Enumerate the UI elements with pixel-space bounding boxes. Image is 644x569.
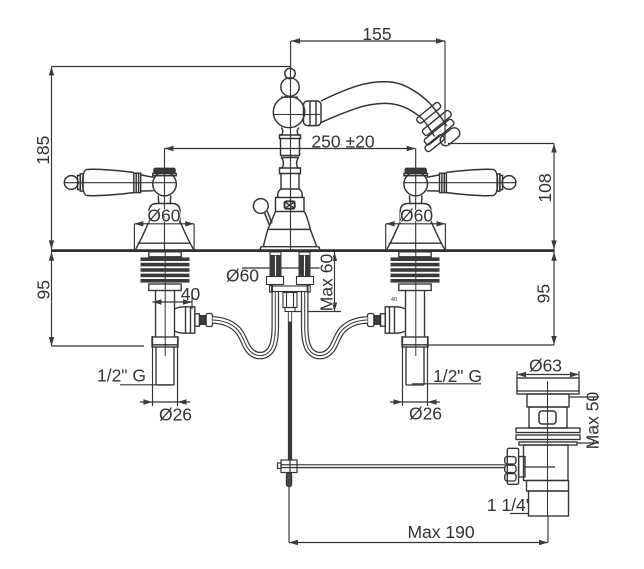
handle stem bbox=[409, 196, 422, 204]
spout bbox=[321, 82, 430, 123]
svg-text:1 1/4': 1 1/4' bbox=[487, 495, 529, 515]
linkage tip bbox=[286, 473, 291, 487]
aerator bbox=[407, 100, 466, 158]
svg-text:108: 108 bbox=[535, 173, 555, 202]
ball bbox=[153, 172, 177, 196]
lever grip bbox=[446, 169, 497, 195]
svg-text:Max 50: Max 50 bbox=[583, 392, 603, 450]
svg-text:Ø26: Ø26 bbox=[409, 404, 442, 424]
base cap bbox=[400, 204, 431, 224]
right handle bbox=[387, 168, 516, 250]
center axis line bbox=[290, 67, 292, 251]
center mounting studs bbox=[267, 252, 314, 312]
svg-text:95: 95 bbox=[534, 284, 554, 303]
dimension O26 left bbox=[140, 336, 190, 406]
pop-up knob bbox=[253, 199, 268, 214]
svg-text:Ø60: Ø60 bbox=[147, 205, 180, 225]
dimension Max 50 drain bbox=[569, 397, 599, 443]
left valve below deck bbox=[141, 252, 190, 385]
lever end rings bbox=[80, 174, 83, 191]
leader 1 1/4 drain bbox=[510, 513, 529, 515]
faucet center column bbox=[253, 67, 321, 251]
finial top ball bbox=[285, 68, 295, 78]
pipe bbox=[156, 290, 175, 337]
pop-up screw symbol bbox=[285, 201, 295, 208]
svg-text:95: 95 bbox=[33, 280, 53, 299]
column bulge bbox=[278, 189, 303, 198]
label Max 50 bbox=[584, 400, 601, 441]
body bell lower bbox=[263, 229, 316, 246]
column segments bbox=[280, 128, 301, 149]
dimension Max 190 bottom bbox=[289, 487, 548, 545]
svg-text:Max 190: Max 190 bbox=[407, 522, 474, 542]
dimension 155 top bbox=[291, 38, 445, 143]
top nut bbox=[399, 252, 431, 257]
svg-text:250 ±20: 250 ±20 bbox=[311, 131, 374, 151]
main ball joint bbox=[273, 96, 304, 127]
base cap bbox=[149, 204, 180, 224]
right valve side port bbox=[368, 307, 406, 333]
body bell upper bbox=[268, 212, 311, 230]
dimension Max 60 center bbox=[295, 252, 341, 312]
left handle bbox=[64, 168, 193, 250]
top nut bbox=[149, 252, 181, 257]
dimension 40 left valve bbox=[153, 291, 193, 309]
bottom nut bbox=[399, 284, 431, 291]
lower body bbox=[524, 445, 569, 481]
lever collar bbox=[134, 173, 141, 192]
threaded pipe 1/2G bbox=[406, 347, 424, 385]
handle stem bbox=[158, 196, 171, 204]
flange bbox=[517, 378, 579, 394]
lever grip bbox=[83, 169, 134, 195]
mounting plate bbox=[272, 286, 309, 292]
spout collar bbox=[304, 101, 322, 126]
dimension O26 right bbox=[390, 336, 440, 406]
body foot bbox=[260, 247, 319, 250]
lever end rings bbox=[497, 174, 500, 191]
aerator inner tube lines bbox=[423, 104, 448, 137]
base flare bbox=[136, 221, 193, 248]
pipe bbox=[406, 290, 425, 337]
drain assembly bbox=[505, 378, 580, 516]
leader 1/2 G left bbox=[120, 384, 173, 386]
right valve below deck bbox=[391, 252, 440, 385]
horizontal drain rod bbox=[297, 465, 506, 468]
threaded disc stack bbox=[141, 257, 190, 282]
bottom nut bbox=[149, 284, 181, 291]
dimension 185 / 95 left vertical line bbox=[49, 67, 291, 347]
svg-text:40: 40 bbox=[391, 297, 397, 303]
svg-text:1/2" G: 1/2" G bbox=[97, 366, 146, 386]
neck bbox=[527, 394, 569, 407]
svg-text:40: 40 bbox=[181, 284, 201, 304]
leader line for center O60 bbox=[242, 267, 322, 269]
dimension 108 / 95 right vertical line bbox=[425, 144, 557, 346]
svg-text:Ø63: Ø63 bbox=[529, 356, 562, 376]
dimension 250 +-20 bbox=[165, 146, 416, 169]
thread collar bbox=[402, 337, 428, 347]
handle cap bbox=[405, 168, 426, 173]
base flare bbox=[388, 221, 445, 248]
stud nuts bbox=[267, 277, 284, 285]
left valve side port bbox=[175, 307, 213, 333]
svg-text:Max 60: Max 60 bbox=[317, 254, 337, 312]
svg-text:1/2" G: 1/2" G bbox=[433, 366, 482, 386]
handle cap bbox=[154, 168, 175, 173]
lever collar bbox=[440, 173, 447, 192]
threaded disc stack bbox=[391, 257, 440, 282]
left hose bbox=[213, 292, 276, 356]
lever neck bbox=[141, 175, 154, 191]
svg-text:185: 185 bbox=[33, 136, 53, 165]
ball bbox=[404, 172, 428, 196]
pop-up rod linkage block bbox=[278, 460, 298, 487]
tailpiece coupling bbox=[527, 481, 569, 492]
leader 1/2 G right bbox=[412, 383, 481, 385]
finial middle ball bbox=[281, 78, 299, 96]
svg-text:Ø26: Ø26 bbox=[159, 405, 192, 425]
dimension O63 drain bbox=[517, 371, 579, 378]
thread collar bbox=[152, 337, 178, 347]
pop-up rod guide block bbox=[283, 293, 297, 308]
svg-text:Ø60: Ø60 bbox=[400, 206, 433, 226]
pop-up housing block bbox=[276, 198, 305, 212]
lever knob bbox=[502, 176, 516, 190]
lever neck bbox=[427, 175, 440, 191]
washers bbox=[516, 428, 580, 433]
right hose bbox=[305, 292, 368, 356]
dimension O60 right handle base bbox=[386, 221, 446, 250]
pop-up rod bbox=[288, 312, 291, 323]
deck line bbox=[52, 249, 555, 252]
threaded pipe 1/2G bbox=[156, 347, 174, 385]
dimension O60 left handle base bbox=[134, 221, 194, 250]
lever knob bbox=[64, 176, 78, 190]
svg-text:Ø60: Ø60 bbox=[226, 266, 259, 286]
svg-text:155: 155 bbox=[362, 24, 391, 44]
knurled wheel bbox=[507, 448, 518, 484]
body with window bbox=[529, 407, 567, 428]
tailpiece bbox=[529, 491, 569, 516]
